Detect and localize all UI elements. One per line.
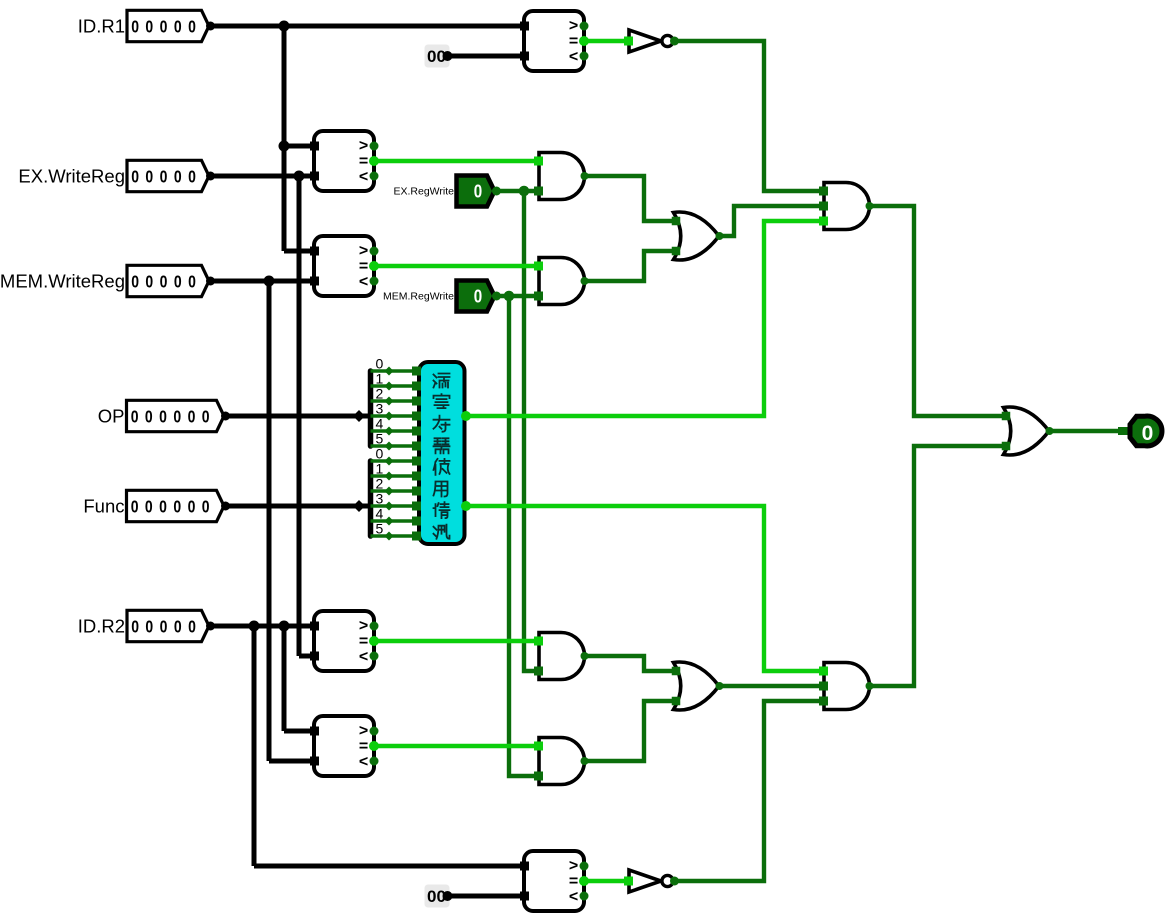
- wire U4 equal output to AND4 top input: [374, 639, 537, 643]
- constant C2 value 00: [425, 885, 453, 908]
- not-gate NOT2 R2 nonzero: [624, 870, 679, 892]
- svg-text:0 0 0 0 0 0: 0 0 0 0 0 0: [131, 408, 211, 427]
- wire EX.WriteReg bus to U2 bottom input: [209, 174, 312, 179]
- output pin stall result value 0: [1130, 416, 1162, 446]
- wire ID.R2 bus to U4 top input: [208, 624, 312, 629]
- comparator U3 ID.R1 vs MEM.WriteReg: [310, 236, 379, 296]
- svg-text:>: >: [569, 858, 578, 875]
- wire AND6 output to final OR bottom input: [869, 446, 1006, 686]
- comparator U4 ID.R2 vs EX.WriteReg: [310, 611, 379, 671]
- svg-text:0: 0: [1142, 422, 1154, 445]
- wire NOT2 output to AND6 bottom input: [674, 701, 826, 881]
- svg-text:0 0 0 0 0 0: 0 0 0 0 0 0: [131, 498, 211, 517]
- input pin ID.R1 5-bit: [78, 10, 215, 41]
- svg-text:3: 3: [376, 491, 384, 507]
- label subcircuit Chinese caption: [434, 374, 450, 539]
- wire ID.R1 rail to U2 top input: [284, 144, 312, 149]
- svg-text:<: <: [359, 648, 368, 665]
- node ID.R1 branch junction: [279, 21, 290, 32]
- node EX.WriteReg branch junction: [294, 171, 305, 182]
- wire Func bus to splitter S2: [224, 504, 359, 509]
- svg-text:0: 0: [376, 446, 384, 462]
- wire U2 equal output to AND1 top input: [374, 159, 537, 163]
- input pin EX.WriteReg 5-bit: [18, 160, 215, 191]
- or-gate OR3 final stall: [1002, 407, 1054, 455]
- wire MEM.RegWrite vertical rail down to AND5: [509, 296, 537, 776]
- svg-text:3: 3: [376, 401, 384, 417]
- svg-text:MEM.RegWrite: MEM.RegWrite: [383, 291, 454, 303]
- wire U1 equal output to NOT1 input: [584, 39, 627, 43]
- constant C1 value 00: [425, 45, 453, 68]
- and-gate AND2 MEM hazard R1: [534, 258, 589, 305]
- svg-text:0: 0: [376, 356, 384, 372]
- svg-text:<: <: [359, 273, 368, 290]
- and-gate AND6 R2 stall condition: [819, 663, 874, 710]
- svg-text:0 0 0 0 0: 0 0 0 0 0: [131, 618, 197, 637]
- wire MEM.WriteReg rail to U5 bottom input: [269, 759, 312, 764]
- wire MEM.WriteReg vertical rail down to U5: [267, 281, 272, 761]
- wire constant C2 to U6 bottom input: [449, 894, 520, 899]
- svg-text:0: 0: [474, 286, 482, 307]
- wire ID.R2 vertical rail down to U5: [282, 626, 287, 731]
- or-gate OR2 R2 hazard combine: [672, 662, 724, 710]
- input pin MEM.WriteReg 5-bit: [0, 265, 215, 296]
- wire ID.R1 vertical rail down to U3: [282, 24, 287, 251]
- wire ID.R2 vertical rail down to U6: [252, 626, 257, 866]
- svg-text:<: <: [569, 888, 578, 905]
- node wire end at AND5 top input: [536, 742, 545, 756]
- node ID.R1 junction at U2 row: [279, 141, 290, 152]
- svg-text:<: <: [359, 753, 368, 770]
- svg-text:1: 1: [376, 371, 384, 387]
- wire EX.RegWrite vertical rail down to AND4: [524, 191, 537, 671]
- svg-text:<: <: [569, 48, 578, 65]
- subcircuit U7 source-register-usage box: [412, 362, 465, 544]
- svg-text:MEM.WriteReg: MEM.WriteReg: [0, 271, 125, 292]
- not-gate NOT1 R1 nonzero: [624, 30, 679, 52]
- svg-text:ID.R2: ID.R2: [78, 616, 125, 637]
- wire U5 equal output to AND5 top input: [374, 744, 540, 748]
- svg-text:2: 2: [376, 476, 384, 492]
- wire U3 equal output to AND2 top input: [374, 264, 537, 268]
- wire OP bus to splitter S1: [224, 414, 359, 419]
- wire OR2 output to AND6 middle input: [719, 684, 826, 688]
- wire ID.R2 rail to U5 top input: [284, 729, 312, 734]
- and-gate AND1 EX hazard R1: [534, 153, 589, 200]
- wire ID.R1 bus to comparator U1 input: [209, 24, 520, 29]
- svg-text:0 0 0 0 0: 0 0 0 0 0: [131, 168, 197, 187]
- input pin ID.R2 5-bit: [78, 610, 215, 641]
- svg-text:4: 4: [376, 416, 384, 432]
- wire AND1 output to OR1 top input: [584, 176, 672, 221]
- node MEM.WriteReg branch junction: [264, 276, 275, 287]
- svg-text:Func: Func: [83, 496, 124, 517]
- svg-text:<: <: [359, 168, 368, 185]
- input pin EX.RegWrite 1-bit value 0: [394, 176, 502, 207]
- svg-text:0: 0: [474, 181, 482, 202]
- node EX.RegWrite branch junction: [519, 186, 530, 197]
- wire constant C1 to U1 bottom input: [449, 54, 520, 59]
- input pin OP 6-bit: [98, 400, 230, 431]
- comparator U5 ID.R2 vs MEM.WriteReg: [310, 716, 379, 776]
- svg-text:EX.WriteReg: EX.WriteReg: [18, 166, 125, 187]
- svg-text:ID.R1: ID.R1: [78, 16, 125, 37]
- wire EX.WriteReg rail to U4 bottom input: [299, 654, 312, 659]
- wire MEM.WriteReg bus to U3 bottom input: [209, 279, 312, 284]
- wire ID.R2 rail to U6 top input: [254, 864, 520, 869]
- svg-text:>: >: [359, 243, 368, 260]
- pin output dot U7 out2: [461, 501, 471, 511]
- and-gate AND4 EX hazard R2: [534, 633, 589, 680]
- wire ID.R1 rail to U3 top input: [284, 249, 312, 254]
- wire subcircuit output 1 to AND3 bottom input: [464, 221, 826, 416]
- splitter S2 for Func bus bits 0-5: [353, 446, 413, 541]
- svg-text:2: 2: [376, 386, 384, 402]
- svg-text:5: 5: [376, 521, 384, 537]
- svg-text:0 0 0 0 0: 0 0 0 0 0: [131, 18, 197, 37]
- node MEM.RegWrite branch junction: [504, 291, 515, 302]
- node ID.R2 branch junction left: [249, 621, 260, 632]
- wire AND3 output to final OR top input: [869, 206, 1006, 416]
- svg-text:>: >: [569, 18, 578, 35]
- wire MEM.RegWrite pin to AND2 lower input: [496, 294, 537, 298]
- wire NOT1 output to AND3 top input: [674, 41, 826, 191]
- pin output dot U7 out1: [461, 411, 471, 421]
- svg-text:>: >: [359, 723, 368, 740]
- svg-text:>: >: [359, 138, 368, 155]
- wire OR1 output to AND3 middle input: [719, 206, 826, 236]
- wire EX.RegWrite pin to AND1 lower input: [496, 189, 537, 193]
- wire stub into result pin: [1118, 427, 1128, 435]
- comparator U2 ID.R1 vs EX.WriteReg: [310, 131, 379, 191]
- svg-text:EX.RegWrite: EX.RegWrite: [394, 186, 455, 198]
- and-gate AND5 MEM hazard R2: [534, 738, 589, 785]
- and-gate AND3 R1 stall condition: [819, 183, 874, 230]
- svg-text:5: 5: [376, 431, 384, 447]
- input pin MEM.RegWrite 1-bit value 0: [383, 281, 501, 312]
- wire subcircuit output 2 to AND6 top input: [464, 506, 826, 671]
- wire EX.WriteReg vertical rail down to U4: [297, 176, 302, 656]
- svg-text:1: 1: [376, 461, 384, 477]
- wire AND5 output to OR2 bottom input: [584, 701, 672, 761]
- or-gate OR1 R1 hazard combine: [672, 212, 724, 260]
- svg-text:4: 4: [376, 506, 384, 522]
- comparator U6 ID.R2 vs 00: [520, 851, 589, 911]
- comparator U1 ID.R1 vs 00: [520, 11, 589, 71]
- svg-text:>: >: [359, 618, 368, 635]
- splitter S1 for OP bus bits 0-5: [353, 356, 413, 451]
- wire U6 equal output to NOT2 input: [584, 879, 627, 883]
- node ID.R2 branch junction right: [279, 621, 290, 632]
- svg-text:0 0 0 0 0: 0 0 0 0 0: [131, 273, 197, 292]
- wire final OR output to result pin: [1049, 429, 1122, 433]
- svg-text:OP: OP: [98, 406, 125, 427]
- wire AND2 output to OR1 bottom input: [584, 251, 672, 281]
- input pin Func 6-bit: [83, 490, 230, 521]
- wire AND4 output to OR2 top input: [584, 656, 672, 671]
